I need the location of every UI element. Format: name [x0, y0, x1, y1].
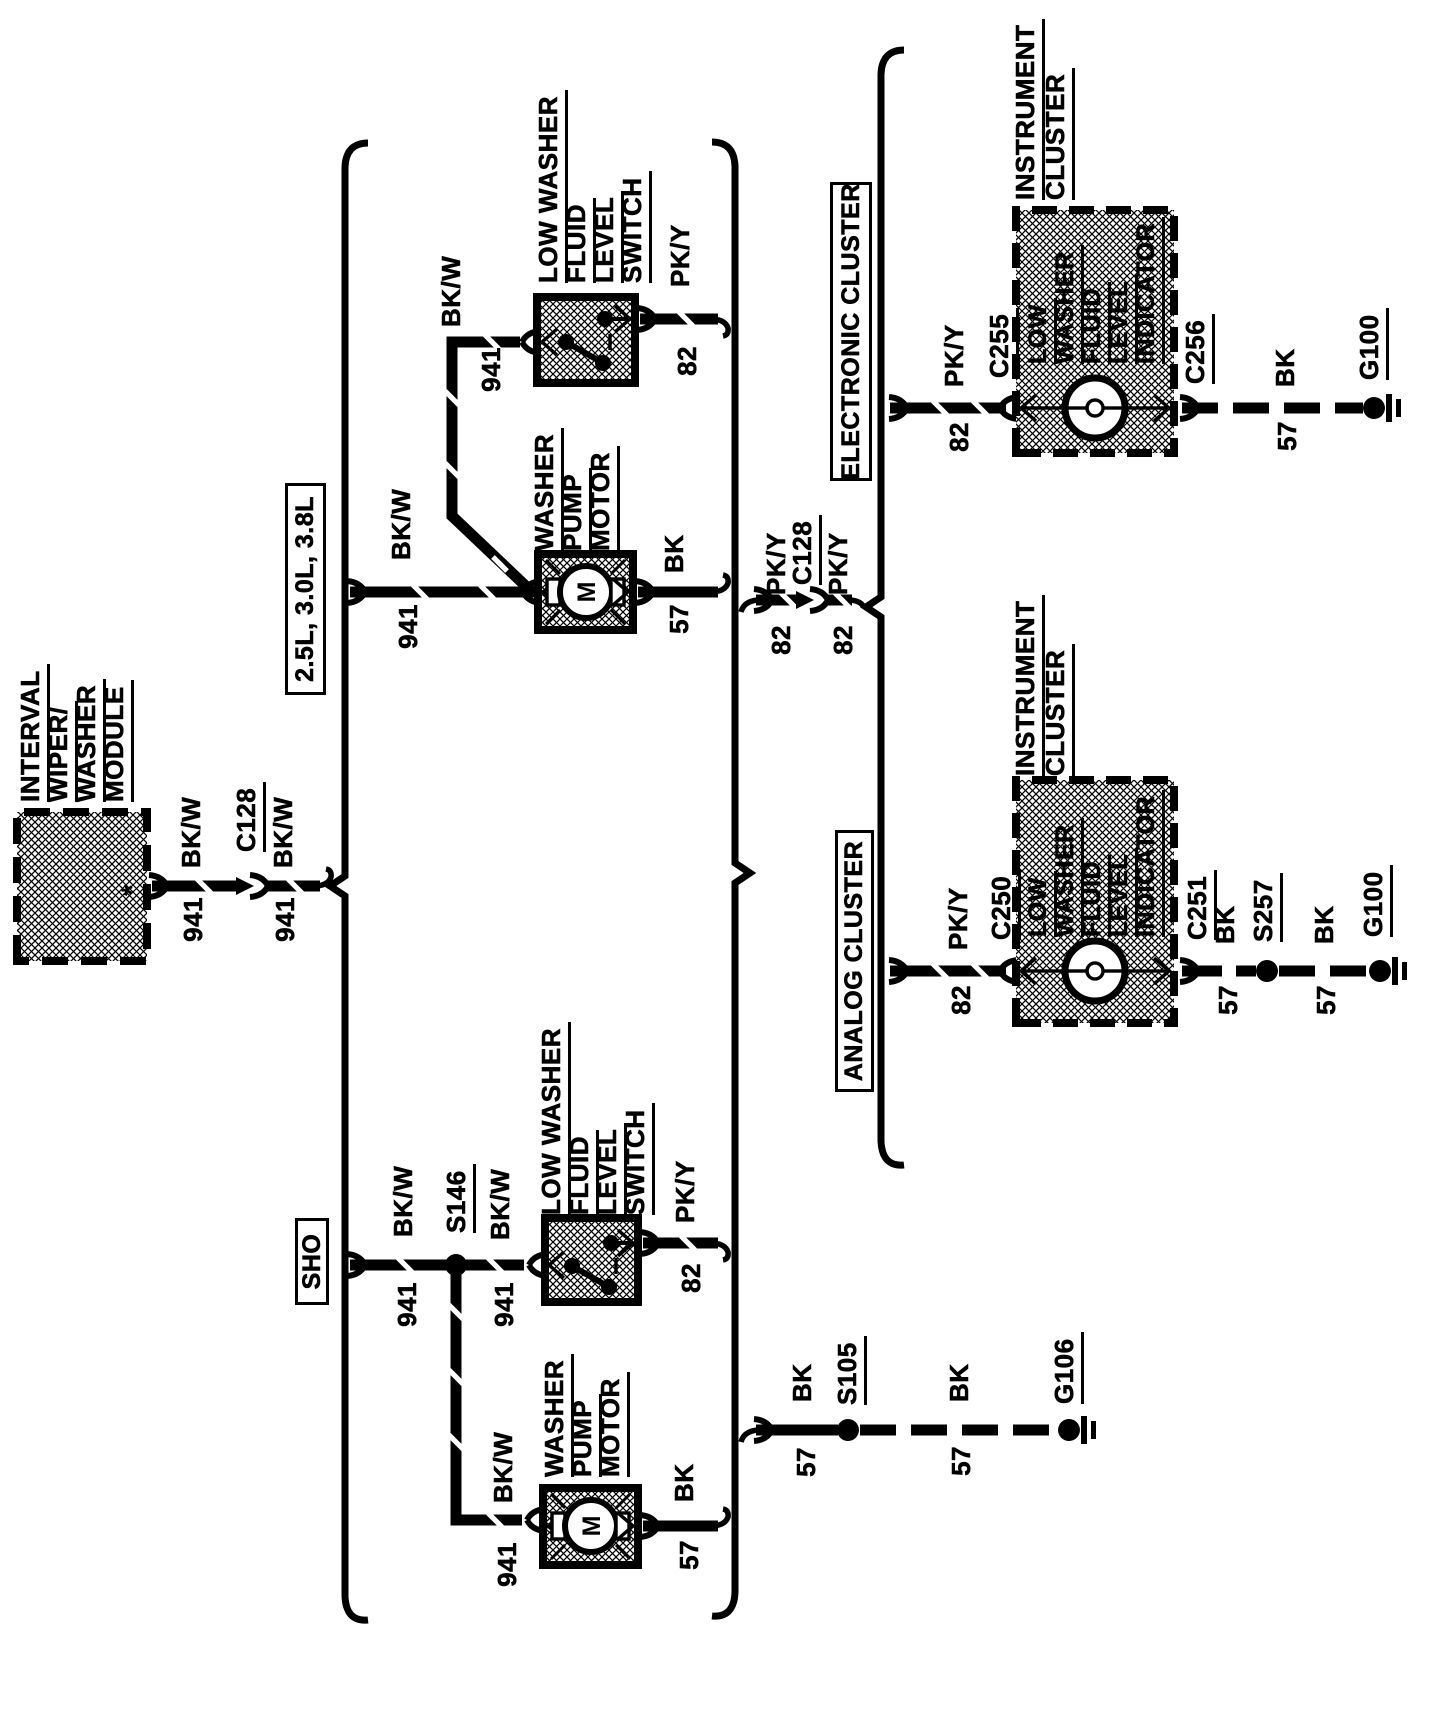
splice S257	[1256, 960, 1278, 982]
low washer fluid level switch label (SHO)	[538, 1022, 564, 1215]
connector C128 (module wire)	[250, 875, 268, 897]
low washer fluid level indicator bulb (electronic)	[1064, 378, 1126, 438]
indicator label (electronic)	[1026, 298, 1051, 364]
ground run labels (S105/G106)	[793, 1447, 819, 1477]
svg-text:M: M	[578, 1516, 606, 1537]
82 PK/Y labels (SHO switch out)	[678, 1263, 704, 1293]
57 BK labels (2.5L motor out)	[666, 604, 692, 634]
connector C251 fork	[1180, 960, 1198, 982]
wire 941 BK/W C128 to brace A cusp	[266, 869, 331, 895]
wire 57 BK C256 to G100 (dashed)	[1182, 403, 1363, 414]
wire 941 BK/W S146 to SHO switch	[462, 1256, 524, 1274]
electronic feed labels	[946, 422, 972, 452]
wire 82 PK/Y switch to brace B	[637, 308, 728, 336]
connector C128 (cluster feed)	[810, 589, 828, 611]
washer pump motor (SHO)	[543, 1488, 638, 1565]
wire 82 PK/Y brace C to electronic cluster C255	[889, 397, 1006, 419]
SHO feed wire labels	[394, 1282, 420, 1327]
svg-text:M: M	[573, 582, 601, 603]
2.5L/3.0L/3.8L option label	[285, 483, 326, 695]
low washer fluid level indicator bulb (analog)	[1064, 941, 1126, 1001]
connector C256 fork	[1180, 397, 1198, 419]
wire 941 BK/W module to C128	[149, 875, 254, 897]
fork into switch top pin	[522, 331, 540, 353]
brace B (engine-options bottom brace)	[712, 142, 750, 1616]
brace A (engine-options top brace)	[330, 143, 368, 1620]
wire 57 BK S105 to G106 (dashed)	[860, 1425, 1058, 1436]
low washer fluid level switch label (2.5L)	[535, 90, 561, 283]
washer pump motor label (2.5L)	[531, 428, 557, 551]
wire 82 PK/Y brace B to C128	[741, 589, 814, 612]
wire 57 BK SHO motor to brace B	[640, 1509, 728, 1537]
C256 / ground labels (electronic)	[1182, 314, 1208, 384]
wire 57 BK S257 to G100 (dashed)	[1279, 966, 1368, 977]
2.5L feed wire labels	[395, 604, 421, 649]
low washer fluid level switch (2.5L)	[537, 297, 635, 383]
instrument cluster header (analog)	[1012, 595, 1038, 776]
instrument cluster box (analog)	[1016, 780, 1174, 1023]
instrument cluster header (electronic)	[1012, 19, 1038, 200]
interval wiper/washer module label	[17, 664, 43, 802]
module wire labels	[180, 897, 206, 942]
instrument cluster box (electronic)	[1016, 210, 1174, 453]
SHO motor branch labels	[494, 1542, 520, 1587]
fork into motor pin	[523, 581, 541, 603]
wire 941 BK/W brace A to 2.5L washer pump motor	[347, 581, 534, 603]
analog cluster option label	[835, 830, 874, 1092]
analog feed labels	[948, 985, 974, 1015]
wire 57 BK brace B to S105	[741, 1419, 838, 1442]
wire 82 PK/Y SHO switch to brace B	[640, 1232, 728, 1260]
wire 82 PK/Y brace C to analog cluster C250	[889, 960, 1006, 982]
splice S105	[837, 1419, 859, 1441]
ground G100 (electronic)	[1363, 394, 1401, 422]
wire 57 BK motor to brace B	[635, 575, 728, 603]
57 BK labels (SHO motor out)	[676, 1540, 702, 1570]
interval wiper/washer module box	[17, 812, 149, 961]
splice S146	[445, 1254, 467, 1276]
C251 / ground labels (analog)	[1184, 870, 1210, 940]
2.5L switch branch labels	[438, 256, 464, 327]
low washer fluid level switch (SHO)	[545, 1218, 638, 1302]
wire branch junction to 2.5L switch	[443, 333, 531, 591]
ground G106	[1058, 1416, 1096, 1444]
SHO option label	[295, 1218, 329, 1305]
electronic cluster option label	[830, 182, 872, 481]
wire 941 BK/W S146 branch to SHO motor	[447, 1273, 522, 1529]
wire 941 BK/W brace A to S146 (SHO)	[347, 1254, 448, 1276]
ground G100 (analog)	[1369, 957, 1407, 985]
brace C (cluster-options brace)	[866, 50, 904, 1165]
washer pump motor label (SHO)	[541, 1354, 567, 1477]
wire 57 BK C251 to S257	[1182, 966, 1256, 977]
82 PK/Y labels (2.5L switch out)	[674, 346, 700, 376]
indicator label (analog)	[1026, 871, 1051, 937]
washer pump motor (2.5L)	[538, 554, 633, 630]
wire 82 PK/Y C128 to brace C cusp	[826, 591, 864, 609]
svg-text:*: *	[116, 884, 149, 896]
C128 run labels	[768, 625, 794, 655]
